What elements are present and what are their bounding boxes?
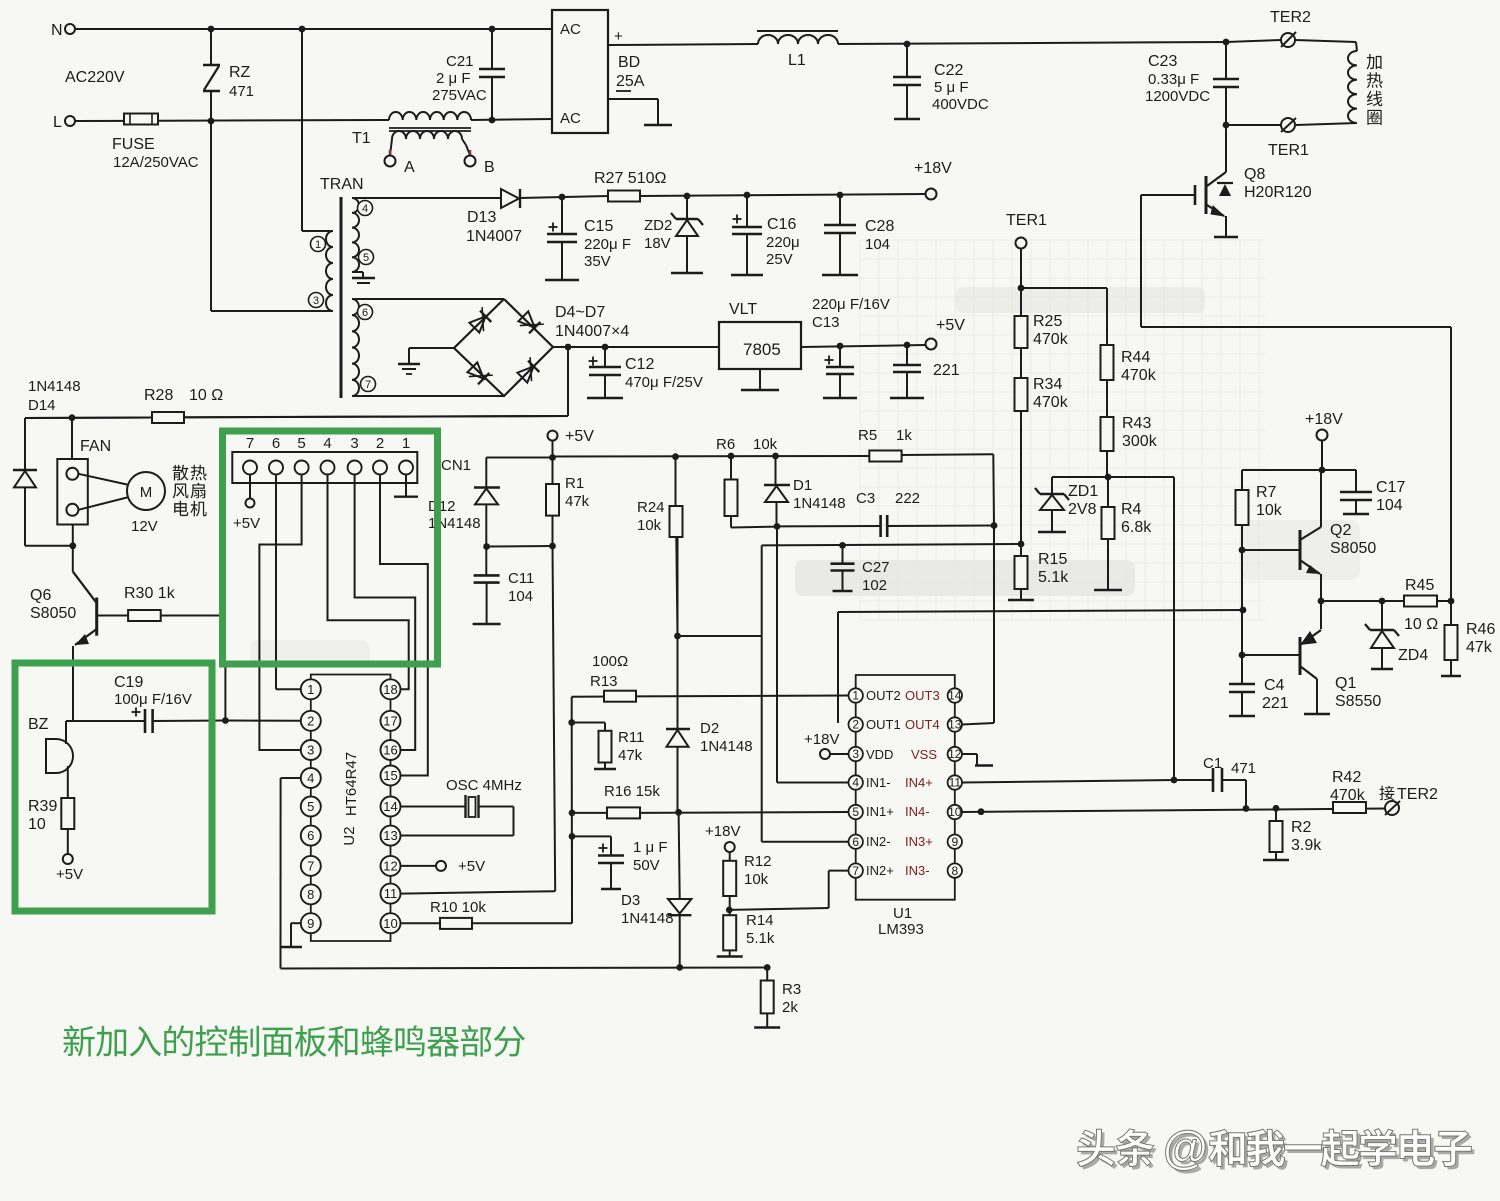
svg-text:S8050: S8050 [1330, 540, 1376, 557]
wire U2 pin11 pullup [401, 891, 556, 893]
node 4 [358, 201, 373, 216]
wire ZD1 node line [1052, 476, 1174, 478]
svg-text:1: 1 [402, 435, 410, 452]
transformer TRAN core [340, 197, 343, 398]
svg-text:OUT4: OUT4 [905, 717, 940, 732]
resistor R14 5.1k [723, 915, 736, 950]
svg-text:R45: R45 [1405, 577, 1434, 594]
svg-text:+18V: +18V [705, 823, 740, 840]
svg-text:5: 5 [852, 805, 859, 819]
svg-text:+5V: +5V [936, 317, 965, 334]
svg-text:R30 1k: R30 1k [124, 585, 176, 602]
ground 7805 [741, 389, 779, 391]
svg-text:IN4+: IN4+ [905, 775, 933, 790]
wire winding6 to bridge [352, 298, 504, 300]
svg-text:10: 10 [28, 816, 46, 833]
capacitor C19 100uF/16V [132, 711, 141, 713]
wire winding5 to ground [352, 271, 363, 273]
svg-text:47k: 47k [618, 747, 643, 764]
diode D3 1N4148 [679, 812, 680, 898]
svg-text:25A: 25A [616, 73, 645, 90]
ground C12 [587, 397, 623, 399]
svg-text:R4: R4 [1121, 501, 1142, 518]
wire CN1 pin2 to U2 pin15 [380, 475, 428, 776]
green box control panel CN1 [223, 431, 438, 664]
svg-text:S8050: S8050 [30, 605, 76, 622]
svg-text:1k: 1k [896, 427, 912, 444]
capacitor C27 102 [839, 542, 846, 549]
svg-text:R25: R25 [1033, 313, 1062, 330]
svg-text:4: 4 [852, 776, 859, 790]
wire TER1 to C23 bottom [1226, 124, 1281, 126]
wire pin6 to D2 junction [678, 635, 762, 637]
svg-text:R12: R12 [744, 853, 772, 870]
pin U2-9 [301, 913, 321, 933]
zener ZD1 2V8 [1051, 477, 1053, 494]
terminal B [465, 156, 476, 167]
resistor R1 47k [546, 484, 559, 516]
svg-text:470k: 470k [1121, 367, 1157, 384]
resistor R4 6.8k [1107, 477, 1109, 507]
svg-text:TER1: TER1 [1268, 142, 1309, 159]
pin U2-8 [301, 884, 321, 904]
svg-text:R46: R46 [1466, 621, 1495, 638]
crystal OSC 4MHz [401, 806, 465, 808]
svg-text:ZD1: ZD1 [1068, 483, 1098, 500]
ground 221 cap [890, 397, 924, 399]
wire U2 pin4 to bottom rail [281, 777, 301, 779]
svg-text:10: 10 [948, 805, 962, 819]
terminal TER1 sense [1016, 238, 1027, 249]
resistor R16 15k [607, 807, 640, 818]
inductor L1 [757, 30, 838, 32]
ground R15 [1008, 599, 1034, 601]
pin U2-2 [301, 711, 321, 731]
pin U1-12 [948, 747, 962, 761]
svg-text:+: + [614, 28, 623, 45]
svg-text:220μ: 220μ [766, 234, 800, 251]
svg-text:7805: 7805 [743, 340, 781, 359]
svg-text:1N4148: 1N4148 [793, 495, 846, 512]
svg-text:16: 16 [383, 743, 397, 758]
pin U2-18 [381, 679, 401, 699]
wire CN1 pin6 to U2 pin1 [275, 475, 277, 690]
svg-text:C1: C1 [1203, 755, 1222, 772]
ground ZD1 [1038, 531, 1066, 533]
svg-text:14: 14 [948, 689, 962, 703]
inductor heating coil [1348, 51, 1357, 123]
svg-text:1200VDC: 1200VDC [1145, 88, 1210, 105]
pin U1-1 [849, 688, 863, 702]
pin CN1-4 [321, 461, 335, 475]
node R12-R14 [726, 907, 733, 914]
svg-text:275VAC: 275VAC [432, 87, 487, 104]
svg-text:471: 471 [229, 83, 254, 100]
wire R13 corner down [571, 697, 573, 723]
resistor R39 10 [67, 766, 69, 798]
resistor R25 470k [1015, 316, 1028, 348]
capacitor C22 5uF 400VDC [904, 41, 911, 48]
capacitor 221 bypass [904, 342, 911, 349]
pin U2-10 [381, 913, 401, 933]
svg-text:3: 3 [350, 435, 358, 452]
ic U2 HT64R47 body [310, 689, 312, 923]
ground R4 [1094, 589, 1122, 591]
ground R3 [754, 1026, 780, 1028]
svg-text:400VDC: 400VDC [932, 96, 989, 113]
wire U1 pin10 line to TER2 [962, 809, 1386, 813]
svg-text:2 μ F: 2 μ F [436, 70, 470, 87]
pin U2-5 [301, 797, 321, 817]
wire R27 to +18V terminal [640, 194, 925, 196]
wire U2 pin12 +5V [401, 865, 437, 867]
terminal L [65, 116, 75, 126]
svg-text:470k: 470k [1330, 787, 1366, 804]
svg-text:D1: D1 [793, 477, 812, 494]
zener ZD4 [1381, 601, 1383, 629]
svg-text:5: 5 [307, 799, 314, 814]
svg-text:R14: R14 [746, 912, 774, 929]
capacitor C3 222 [879, 515, 882, 537]
svg-text:B: B [484, 159, 495, 176]
transistor Q6 S8050 [73, 572, 97, 604]
transformer T1 primary winding [389, 112, 471, 120]
capacitor C15 220uF 35V [559, 194, 566, 201]
pin CN1-7 [243, 461, 257, 475]
fan FAN connector box [71, 418, 73, 459]
wire coil to TER1 [1296, 123, 1357, 125]
svg-text:U2: U2 [341, 826, 358, 845]
pin CN1-2 [373, 461, 387, 475]
resistor R15 5.1k [1015, 556, 1028, 589]
svg-text:3: 3 [313, 295, 319, 307]
svg-text:7: 7 [852, 864, 859, 878]
capacitor C12 470uF/25V [604, 347, 606, 366]
wire CN1 pin7 +5V [249, 475, 251, 499]
pin U1-2 [849, 717, 863, 731]
svg-text:300k: 300k [1122, 433, 1158, 450]
svg-text:220μ F/16V: 220μ F/16V [812, 296, 890, 313]
transformer T1 secondary winding [392, 131, 462, 139]
svg-text:BD: BD [618, 54, 640, 71]
svg-text:FUSE: FUSE [112, 136, 155, 153]
terminal +5V CN1 [246, 499, 255, 508]
svg-text:1: 1 [852, 689, 859, 703]
svg-text:0.33μ F: 0.33μ F [1148, 71, 1199, 88]
svg-text:C28: C28 [865, 218, 894, 235]
terminal +5V U2 pin12 [436, 861, 446, 871]
wire TER1 to R25 [1020, 249, 1022, 316]
resistor R28 10 [152, 412, 184, 423]
svg-text:C12: C12 [625, 356, 654, 373]
ground U2 pin9 [291, 922, 301, 924]
svg-text:6: 6 [362, 307, 368, 319]
wire +5V rail [552, 441, 554, 484]
zener ZD2 18V [684, 193, 691, 200]
svg-text:3: 3 [307, 743, 314, 758]
wire branch to R44 [1021, 287, 1107, 289]
terminal +5V rail [548, 431, 558, 441]
svg-text:R39: R39 [28, 798, 57, 815]
buzzer BZ [46, 739, 73, 773]
svg-text:Q2: Q2 [1330, 522, 1351, 539]
diode D2 1N4148 [674, 633, 681, 640]
svg-text:35V: 35V [584, 253, 611, 270]
wire C27 line [762, 544, 1021, 545]
capacitor C23 0.33uF 1200VDC [1223, 39, 1230, 46]
svg-text:470k: 470k [1033, 331, 1069, 348]
transformer TRAN primary 1-3 winding [326, 231, 333, 311]
terminal TER2 [1226, 40, 1281, 42]
regulator VLT 7805 [719, 322, 801, 369]
svg-text:R24: R24 [637, 499, 665, 516]
svg-text:U1: U1 [893, 905, 912, 922]
capacitor C17 104 [1355, 470, 1357, 491]
ground C28 [822, 274, 858, 276]
svg-text:IN1+: IN1+ [866, 804, 894, 819]
svg-text:222: 222 [895, 490, 920, 507]
wire U1 pin11 to C1 [962, 780, 1174, 783]
wire buzzer to C19 line [66, 720, 144, 722]
pin U2-4 [301, 768, 321, 788]
svg-text:8: 8 [951, 864, 958, 878]
svg-text:2k: 2k [782, 999, 798, 1016]
svg-text:C27: C27 [862, 559, 890, 576]
pin U2-14 [381, 797, 401, 817]
svg-text:C16: C16 [767, 216, 796, 233]
svg-text:6.8k: 6.8k [1121, 519, 1152, 536]
svg-text:1: 1 [315, 239, 321, 251]
ground Q1 collector [1304, 713, 1330, 715]
wire pin4 net to D1 [777, 782, 849, 784]
svg-text:M: M [140, 484, 153, 501]
pin U2-13 [381, 826, 401, 846]
svg-text:+5V: +5V [565, 428, 594, 445]
svg-text:OUT1: OUT1 [866, 717, 901, 732]
svg-text:VDD: VDD [866, 747, 893, 762]
svg-text:6: 6 [852, 835, 859, 849]
svg-text:12: 12 [383, 859, 397, 874]
pin U1-7 [849, 863, 863, 877]
svg-text:11: 11 [949, 776, 962, 790]
terminal +18V U1 VDD [820, 749, 830, 759]
svg-text:CN1: CN1 [441, 457, 471, 474]
wire Q8 gate loop [1140, 195, 1142, 327]
capacitor C16 220u 25V [744, 192, 751, 199]
svg-text:15: 15 [383, 768, 397, 783]
ground C15 [545, 279, 579, 281]
wire pin7 net [829, 870, 849, 872]
ground R11 [594, 768, 616, 770]
svg-text:BZ: BZ [28, 716, 49, 733]
label caption new control panel and buzzer [63, 1025, 94, 1056]
pin CN1-6 [269, 461, 283, 475]
connector CN1 [232, 452, 417, 483]
wire CN1 pin4 to U2 pin18 [328, 475, 409, 690]
resistor R12 10k [729, 852, 731, 861]
svg-text:+18V: +18V [914, 160, 952, 177]
svg-text:471: 471 [1231, 760, 1256, 777]
svg-text:S8550: S8550 [1335, 693, 1381, 710]
ground 1uF cap [601, 888, 621, 890]
svg-text:+5V: +5V [233, 515, 260, 532]
svg-text:1 μ F: 1 μ F [633, 839, 667, 856]
node 1 [311, 237, 326, 252]
svg-text:13: 13 [383, 828, 397, 843]
terminal +5V buzzer [63, 854, 73, 864]
wire R44-R43 [1106, 380, 1108, 417]
svg-text:9: 9 [951, 835, 958, 849]
svg-text:ZD2: ZD2 [644, 217, 672, 234]
ground ZD2 [671, 272, 703, 274]
bridge BD 25A box [552, 10, 608, 133]
wire R28 line [25, 417, 152, 420]
svg-text:@: @ [1163, 1121, 1208, 1173]
wire CN1 pin5 to U2 pin3 [259, 475, 301, 751]
transformer TRAN winding 6-7 [352, 299, 359, 396]
svg-text:11: 11 [384, 886, 398, 901]
pin CN1-5 [295, 461, 309, 475]
capacitor C28 104 [837, 192, 844, 199]
svg-text:H20R120: H20R120 [1244, 184, 1312, 201]
svg-text:5 μ F: 5 μ F [934, 79, 968, 96]
resistor R44 470k [1101, 345, 1114, 380]
svg-text:R1: R1 [565, 475, 584, 492]
pin U1-4 [849, 775, 863, 789]
wire winding4 to D13 [352, 197, 501, 199]
svg-text:2V8: 2V8 [1068, 501, 1097, 518]
svg-text:10: 10 [383, 916, 397, 931]
svg-text:C15: C15 [584, 218, 613, 235]
wire L to AC box [471, 119, 552, 120]
ground C17 [1343, 513, 1369, 515]
resistor R45 10 [1404, 596, 1437, 607]
svg-text:7: 7 [246, 435, 254, 452]
wire L line [75, 120, 389, 121]
svg-text:N: N [51, 22, 63, 39]
wire R45 right [1437, 600, 1451, 602]
transistor Q8 H20R120 IGBT [1207, 172, 1226, 186]
svg-text:VSS: VSS [911, 747, 937, 762]
svg-text:1N4148: 1N4148 [28, 378, 81, 395]
svg-text:102: 102 [862, 577, 887, 594]
svg-text:R2: R2 [1291, 819, 1312, 836]
terminal +18V R12 [725, 842, 735, 852]
pin CN1-1 [399, 461, 413, 475]
wire bridge left to ground [409, 347, 454, 349]
pin U1-10 [948, 805, 962, 819]
ground ZD4 [1371, 668, 1393, 670]
wire CN1 pin1 ground [405, 475, 407, 496]
ground R2 [1263, 859, 1289, 861]
terminal A [385, 156, 396, 167]
pin U2-12 [381, 856, 401, 876]
svg-text:104: 104 [508, 588, 533, 605]
bridge rectifier D4~D7 1N4007x4 [454, 299, 553, 396]
wire +18V rail [520, 196, 608, 198]
wire +18V feed [1317, 430, 1328, 441]
resistor R43 300k [1101, 417, 1114, 451]
svg-text:+18V: +18V [804, 731, 839, 748]
svg-text:AC220V: AC220V [65, 69, 125, 86]
svg-text:104: 104 [865, 236, 890, 253]
wire driver out to R45 [1321, 600, 1404, 602]
svg-text:D13: D13 [467, 209, 496, 226]
capacitor C13 220uF/16V [837, 343, 844, 350]
svg-text:TER2: TER2 [1270, 9, 1311, 26]
resistor R13 100 [604, 691, 636, 702]
node 7 [361, 377, 376, 392]
svg-text:RZ: RZ [229, 64, 251, 81]
wire R43 to node [1106, 451, 1108, 477]
svg-text:T1: T1 [352, 130, 371, 147]
svg-text:R7: R7 [1256, 484, 1277, 501]
svg-text:4: 4 [362, 203, 368, 215]
svg-text:10k: 10k [637, 517, 662, 534]
wire C23 to Q8 collector [1225, 125, 1227, 172]
wire node to C1 column [1173, 477, 1175, 780]
terminal +5V main [926, 339, 937, 350]
svg-text:D14: D14 [28, 397, 56, 414]
svg-text:100Ω: 100Ω [592, 653, 628, 670]
diode D12 1N4148 [485, 458, 487, 488]
svg-text:470μ F/25V: 470μ F/25V [625, 374, 703, 391]
svg-text:IN3+: IN3+ [905, 834, 933, 849]
svg-text:4: 4 [307, 771, 314, 786]
pin U1-8 [948, 863, 962, 877]
resistor R42 470k [1333, 802, 1366, 813]
svg-text:17: 17 [383, 713, 397, 728]
svg-text:C17: C17 [1376, 479, 1405, 496]
svg-text:6: 6 [272, 435, 280, 452]
svg-text:R34: R34 [1033, 376, 1062, 393]
svg-text:R28: R28 [144, 387, 173, 404]
wire BD- to ground [608, 98, 658, 100]
diode D1 1N4148 [775, 456, 777, 485]
svg-text:221: 221 [1262, 695, 1289, 712]
svg-text:3: 3 [852, 747, 859, 761]
fuse FUSE 12A/250VAC [124, 114, 158, 125]
node 5 [359, 250, 374, 265]
svg-text:C13: C13 [812, 314, 840, 331]
svg-text:47k: 47k [1466, 639, 1493, 656]
svg-text:18V: 18V [644, 235, 671, 252]
resistor R3 2k [766, 968, 768, 981]
wire HV rail [608, 44, 758, 45]
svg-text:R6: R6 [716, 436, 735, 453]
svg-text:12V: 12V [131, 518, 158, 535]
pin U1-13 [948, 717, 962, 731]
svg-text:12: 12 [948, 747, 962, 761]
svg-text:2: 2 [376, 435, 384, 452]
pin U2-3 [301, 740, 321, 760]
svg-text:R10 10k: R10 10k [430, 899, 486, 916]
svg-text:7: 7 [307, 859, 314, 874]
svg-text:AC: AC [560, 21, 581, 38]
svg-text:HT64R47: HT64R47 [343, 752, 360, 816]
ground C27 [833, 590, 853, 592]
svg-text:100μ F/16V: 100μ F/16V [114, 691, 192, 708]
pin U2-1 [301, 679, 321, 699]
svg-text:LM393: LM393 [878, 921, 924, 938]
wire RZ-down to TRAN pin3 [210, 121, 212, 311]
resistor R7 10k [1241, 470, 1243, 490]
svg-text:D3: D3 [621, 892, 640, 909]
pin U1-14 [948, 688, 962, 702]
wire winding7 to bridge [352, 395, 504, 397]
svg-text:10k: 10k [753, 436, 778, 453]
wire R25-R34 [1020, 348, 1022, 378]
